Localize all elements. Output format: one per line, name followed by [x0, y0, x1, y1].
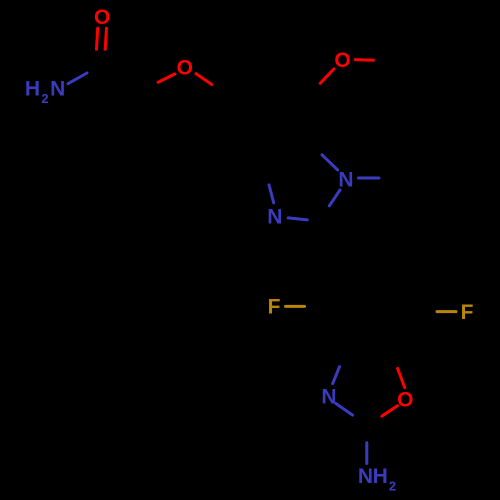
bond N-C3a blue half: [333, 367, 340, 384]
bond O-Car red half: [196, 74, 212, 85]
bond O-CH2 red half: [158, 74, 175, 82]
bond O-C2 red half: [382, 406, 398, 417]
svg-text:O: O: [334, 49, 350, 72]
bond N-C(=O) blue half: [68, 73, 87, 84]
svg-text:N: N: [50, 78, 65, 101]
bond O-C7a red half: [398, 368, 405, 387]
svg-text:N: N: [358, 465, 373, 488]
svg-text:H: H: [25, 78, 40, 101]
bond N1-C7a blue half: [322, 155, 338, 170]
bond N3-C3a blue half: [269, 185, 274, 203]
svg-text:O: O: [177, 57, 193, 80]
bond O-Car red half: [320, 69, 334, 83]
svg-text:N: N: [267, 205, 282, 228]
svg-text:F: F: [461, 301, 474, 324]
bond F-C olive half: [437, 310, 456, 313]
bond F-C olive half: [286, 305, 305, 308]
svg-text:N: N: [338, 169, 353, 192]
bond N1-CH3 blue half: [359, 177, 380, 180]
svg-text:2: 2: [389, 478, 396, 493]
svg-text:2: 2: [41, 91, 48, 106]
svg-text:N: N: [321, 386, 336, 409]
bond N3=C2 blue half: [288, 218, 307, 220]
amino NH2 bond blue half: [365, 443, 368, 464]
svg-text:O: O: [94, 6, 110, 29]
bond O-CH3 red half: [355, 58, 373, 62]
bond N=C2 blue half: [336, 404, 353, 416]
svg-text:H: H: [373, 465, 388, 488]
svg-text:O: O: [397, 389, 413, 412]
svg-text:F: F: [268, 296, 281, 319]
C=O double bond line 1: [97, 28, 98, 49]
bond N1-C2 blue half: [329, 190, 340, 206]
C=O double bond line 2: [105, 28, 106, 49]
